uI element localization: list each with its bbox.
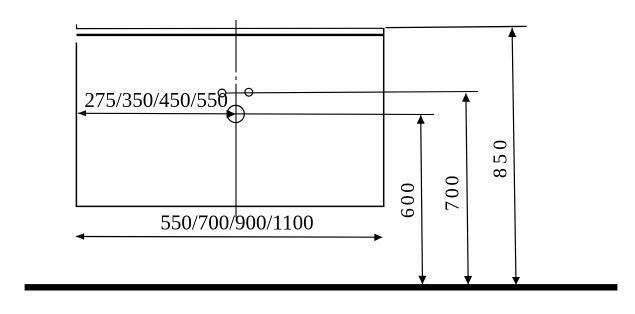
svg-text:550/700/900/1100: 550/700/900/1100 — [160, 210, 313, 234]
svg-text:275/350/450/550: 275/350/450/550 — [84, 88, 228, 112]
svg-text:850: 850 — [489, 138, 511, 178]
svg-text:700: 700 — [442, 174, 464, 211]
svg-text:600: 600 — [397, 181, 419, 218]
